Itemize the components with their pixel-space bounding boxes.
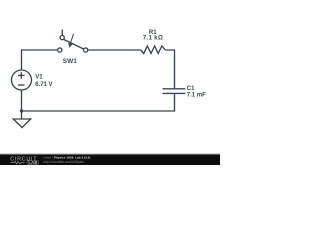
switch SW1 actuation arrow: [69, 34, 74, 47]
wire V1 bottom to node: [21, 90, 23, 111]
wire V1 top to switch: [22, 50, 58, 71]
svg-text:7.1 mF: 7.1 mF: [187, 92, 206, 98]
svg-text:http://circuitlab.com/c/69pdrc: http://circuitlab.com/c/69pdrc: [43, 160, 84, 164]
resistor R1: [141, 46, 166, 54]
footer bar: [0, 154, 220, 166]
capacitor C1 top plate: [163, 88, 186, 90]
ground stub: [21, 111, 23, 119]
switch SW1 blade: [64, 40, 84, 50]
capacitor C1 bottom plate: [163, 92, 186, 94]
wire capacitor bottom to ground node: [22, 94, 175, 111]
voltage source V1: [12, 70, 32, 90]
svg-text:mbert / Physics 1053: Lab 3 (3: mbert / Physics 1053: Lab 3 (3.1): [43, 155, 90, 159]
wire switch blade handle stub: [61, 30, 63, 36]
ground: [13, 119, 30, 128]
svg-text:6.71 V: 6.71 V: [35, 82, 52, 88]
svg-text:LAB: LAB: [28, 160, 37, 165]
switch SW1 blade end circle: [60, 36, 64, 40]
wire resistor to capacitor top: [165, 50, 174, 88]
svg-text:7.1 kΩ: 7.1 kΩ: [143, 36, 163, 42]
svg-text:V1: V1: [35, 75, 43, 81]
wire switch to resistor: [88, 49, 141, 51]
svg-text:C1: C1: [187, 86, 195, 92]
junction node: [20, 109, 23, 112]
switch SW1 terminal circles: [58, 48, 62, 52]
svg-text:SW1: SW1: [63, 58, 77, 65]
